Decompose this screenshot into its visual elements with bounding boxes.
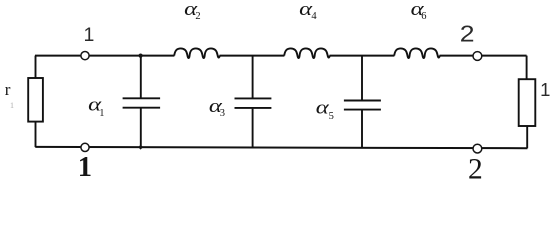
- svg-text:α: α: [316, 96, 329, 118]
- svg-text:2: 2: [460, 21, 475, 47]
- svg-text:3: 3: [220, 108, 225, 119]
- svg-text:1: 1: [540, 79, 550, 100]
- svg-text:1: 1: [10, 101, 14, 110]
- svg-text:2: 2: [195, 11, 200, 22]
- svg-text:1: 1: [99, 108, 104, 119]
- svg-text:1: 1: [78, 152, 92, 183]
- svg-text:r: r: [5, 80, 11, 99]
- svg-text:6: 6: [421, 11, 426, 22]
- svg-text:5: 5: [329, 111, 334, 122]
- svg-text:4: 4: [311, 11, 317, 22]
- svg-text:1: 1: [84, 24, 95, 46]
- svg-text:2: 2: [468, 154, 483, 184]
